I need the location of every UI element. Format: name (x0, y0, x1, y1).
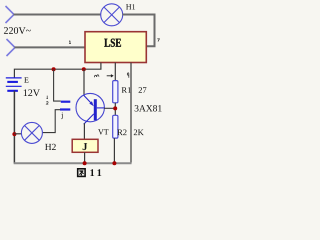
wire: AC bottom line to LSE pin 1 (15, 46, 86, 48)
relay contact j (terminal 2 mark) (46, 102, 48, 105)
wire: transistor collector down to relay J (83, 123, 85, 139)
wire: H2 branch from left wire (14, 133, 21, 135)
relay coil J (72, 139, 98, 152)
wire: AC top line to lamp H1 (14, 14, 102, 16)
lamp H1 (101, 4, 123, 26)
label H1 (126, 4, 135, 9)
label VT (98, 129, 108, 134)
label 12V (24, 89, 40, 96)
pin 1 label (69, 41, 71, 44)
AC terminal chevron bottom (line N) (7, 39, 16, 56)
wire: emitter branch down into transistor (83, 69, 85, 96)
wire: LSE pin 5 down right side to bus (130, 63, 132, 164)
label E (24, 77, 28, 82)
wire: relay J to bottom bus (84, 152, 86, 163)
wire: +12V bus from battery to LSE pin 3 (14, 63, 101, 78)
node: junction R1/R2/base (113, 106, 117, 110)
label j (61, 113, 63, 120)
relay contact j upper bar (61, 101, 71, 103)
wire: LSE pin 4 down to R1 (114, 63, 116, 81)
pin 5 label (rotated) (127, 73, 129, 78)
value 27 (139, 87, 147, 93)
pin 3 label (rotated) (94, 75, 98, 78)
value 2K (134, 129, 144, 135)
pin 4 arrow mark (107, 75, 112, 77)
relay contact j lower bar (60, 108, 70, 110)
node: junction bus / relay contact branch (52, 67, 56, 71)
resistor R2 (113, 115, 118, 138)
wire: battery negative down the left side (13, 91, 15, 164)
node: junction bus / relay J (83, 161, 87, 165)
wire: transistor base to R1/R2 junction (104, 107, 115, 109)
wire: bottom return bus (14, 162, 132, 164)
battery E 12V (6, 78, 22, 91)
label 220V~ (4, 27, 31, 34)
label H2 (45, 144, 56, 150)
relay contact j (terminal 1 mark) (47, 96, 48, 99)
label R1 (122, 87, 131, 93)
node: junction bus / emitter branch (82, 67, 86, 71)
wire: lamp H1 to right drop (122, 14, 155, 16)
wire: right vertical drop to LSE pin 7 (147, 14, 155, 47)
label 3AX81 (transistor type) (135, 105, 162, 111)
label R2 (117, 129, 126, 135)
pin 7 label (157, 39, 159, 42)
lamp H2 (21, 122, 42, 143)
caption: 11 (90, 169, 101, 176)
transistor VT (PNP 3AX81) (76, 93, 104, 124)
wire: R1 bottom to junction (114, 103, 116, 116)
caption: figure glyph (78, 169, 85, 177)
wire: bus down to contact j upper terminal (54, 69, 61, 101)
wire: R2 bottom to ground bus (113, 138, 115, 163)
node: junction left wire / lamp H2 (12, 132, 16, 136)
AC terminal chevron top (line L) (6, 6, 15, 23)
node: junction bus / R2 (112, 161, 116, 165)
resistor R1 (113, 81, 118, 103)
module U1 LSE (85, 32, 146, 63)
wire: contact j lower terminal down and left to lamp H2 (42, 110, 60, 133)
